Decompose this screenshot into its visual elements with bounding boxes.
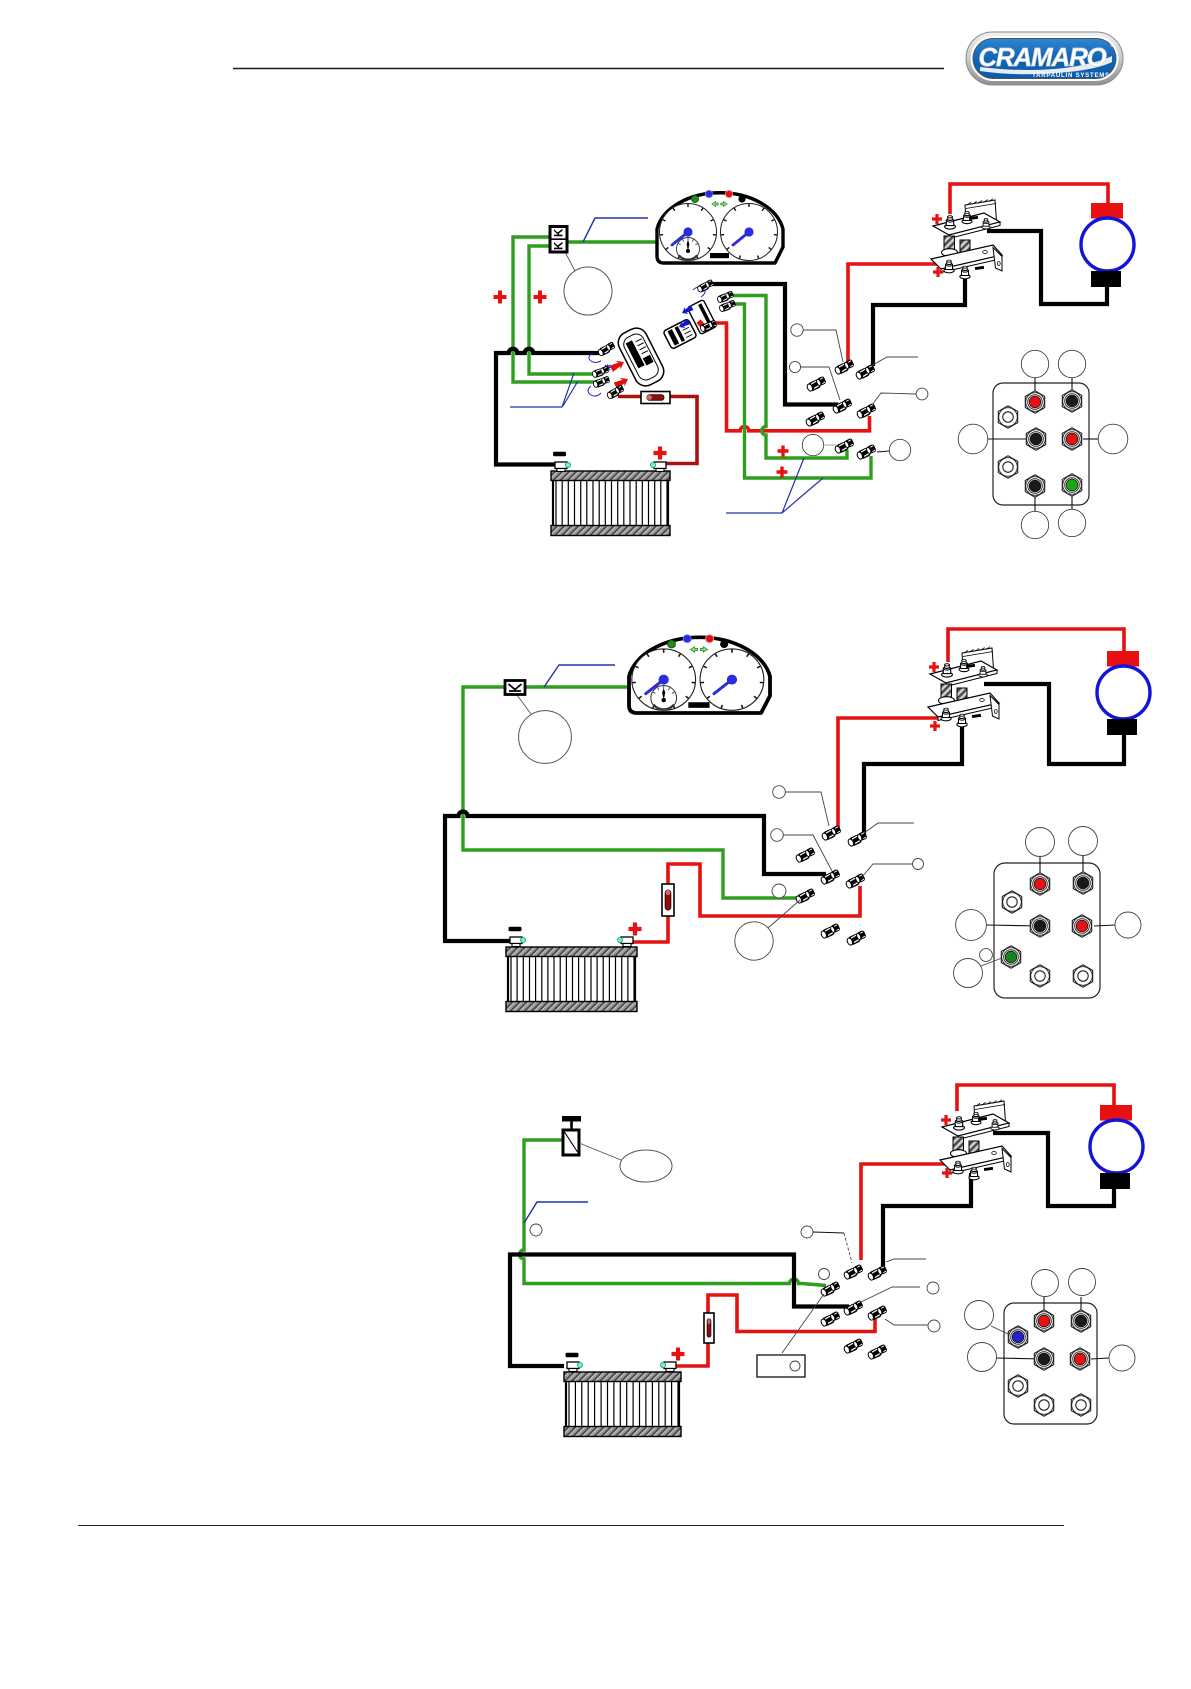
leader line B3 d3 <box>886 1259 926 1262</box>
nut empty bottom-right d2 <box>1073 965 1092 987</box>
bullet connector G2 d2 <box>820 923 842 940</box>
exploded connector assembly d1 <box>588 287 717 396</box>
wire red solenoid lower to bullet A3' d3 <box>861 1164 950 1260</box>
terminal circle right d3 <box>1109 1345 1135 1371</box>
pin line right d2 <box>1094 925 1115 926</box>
terminal small circle d2 <box>980 949 993 962</box>
svg-text:K: K <box>553 228 565 237</box>
solenoid relay assembly d3 <box>940 1100 1011 1180</box>
leader line A d1 <box>803 330 843 362</box>
leader switch to circle d2 <box>517 695 531 714</box>
battery minus sign d2 <box>509 927 522 932</box>
nut red middle-right d3 <box>1070 1348 1089 1370</box>
bullet connector (green top right) d1 <box>716 290 734 303</box>
fuse F2 d2 <box>662 884 674 916</box>
solenoid plus lower d3 <box>942 1168 952 1178</box>
nut red top-left d1 <box>1025 391 1044 413</box>
label box d3 <box>757 1355 805 1377</box>
battery B3 d3 <box>564 1372 681 1437</box>
svg-text:K: K <box>553 241 565 250</box>
solenoid plus lower d1 <box>933 267 943 277</box>
leader circle C2 d2 <box>771 829 784 842</box>
leader blue second to green d1 <box>563 381 578 406</box>
battery plus sign d3 <box>672 1348 685 1361</box>
fuse F1 d1 <box>641 392 670 404</box>
plus mark at green H d1 <box>777 467 788 478</box>
bullet connector G d1 <box>834 438 856 455</box>
leader blue to cluster wire d1 <box>583 218 648 242</box>
bullet connector B d1 <box>855 364 877 381</box>
battery plus sign d2 <box>629 923 642 936</box>
leader circle E2 d2 <box>913 859 924 870</box>
terminal circle left-mid d3 <box>968 1343 997 1372</box>
leader line D d1 <box>801 367 840 400</box>
terminal circle bottom-left d2 <box>954 959 983 988</box>
leader line E3 d3 <box>885 1319 928 1325</box>
wire red solenoid top to motor d1 <box>950 184 1108 214</box>
bullet connector H2 d2 <box>846 930 868 947</box>
bullet connector H d1 <box>856 444 878 461</box>
nut black middle-left d2 <box>1030 915 1049 937</box>
terminal circle top-left d2 <box>1026 828 1055 857</box>
battery negative terminal d1 <box>555 462 571 472</box>
wire dark-red bullet to fuse to battery plus d1 <box>618 397 697 464</box>
pin line blue d3 <box>991 1326 1008 1334</box>
wire black battery minus loop d3 <box>510 1255 849 1367</box>
leader line G d1 <box>824 444 836 446</box>
terminal circle top-left d1 <box>1021 350 1048 377</box>
terminal circle bottom-right d1 <box>1058 509 1085 536</box>
bullet connector (green lower) d1 <box>592 376 610 389</box>
nut empty bottom-right d3 <box>1071 1394 1090 1416</box>
leader circle (switch note) d1 <box>564 267 612 315</box>
bullet connector E3 d3 <box>867 1305 889 1322</box>
footer rule <box>78 1525 1064 1527</box>
motor M3 d3 black terminal block <box>1100 1173 1130 1189</box>
bullet connector (cluster black wire) d1 <box>696 279 714 293</box>
solenoid relay assembly d1 <box>931 199 1002 279</box>
instrument cluster d2 <box>629 635 770 713</box>
terminal circle left d2 <box>956 910 987 941</box>
battery positive terminal d2 <box>617 937 633 947</box>
pin line right d1 <box>1083 438 1098 440</box>
nut blue left-upper d3 <box>1008 1326 1027 1348</box>
leader blue second branch d1 <box>782 478 823 513</box>
leader line A3' d3 <box>813 1232 844 1233</box>
nut black top-right d2 <box>1073 872 1092 894</box>
bullet connector (green upper) d1 <box>591 366 609 379</box>
battery positive terminal d1 <box>650 462 666 472</box>
motor M1 d1 black terminal block <box>1091 271 1121 287</box>
leader line switch to circle d1 <box>565 252 575 271</box>
wire black solenoid to bullet B2 d2 <box>864 724 962 834</box>
pin line left d3 <box>996 1358 1044 1359</box>
bullet connector (black wire) d1 <box>597 341 617 357</box>
leader line C2 d2 <box>783 835 832 871</box>
motor M1 d1 red terminal block <box>1091 203 1123 219</box>
wire black motor to solenoid plate d3 <box>993 1133 1114 1206</box>
plus mark right d1 <box>534 291 547 304</box>
solenoid plus upper d2 <box>929 662 939 672</box>
leader line A2 d2 <box>785 792 829 826</box>
leader circle H d1 <box>889 439 910 460</box>
leader line E d1 <box>872 393 916 405</box>
bullet connector E d1 <box>856 403 878 420</box>
nut empty left-lower d3 <box>1008 1375 1027 1397</box>
wire black motor to solenoid plate d1 <box>987 231 1107 304</box>
leader line C3 d3 <box>861 1287 920 1302</box>
nut green bottom-right d1 <box>1062 474 1081 496</box>
wire green assembly to bullet H d1 <box>733 304 871 478</box>
leader small circle green d2 <box>772 884 786 898</box>
bullet connector F d1 <box>805 411 827 428</box>
wire green switch to cluster d2 <box>525 685 629 688</box>
pin line top-left d3 <box>1043 1297 1045 1321</box>
battery B2 d2 <box>506 947 637 1012</box>
terminal circle left-upper d3 <box>965 1301 994 1330</box>
wire red fuse to bullet E2 d2 <box>668 864 860 916</box>
wire green switch left-inner d1 <box>529 246 599 374</box>
nut empty bottom-left d3 <box>1034 1394 1053 1416</box>
wire green switch to bullet A3 d3 <box>520 1140 827 1286</box>
terminal circle top-right d2 <box>1069 827 1098 856</box>
bullet connector D3 d3 <box>820 1311 842 1328</box>
bullet connector A3 d3 <box>820 1281 842 1298</box>
pin line green d2 <box>981 958 1002 966</box>
leader line F2 d2 <box>768 900 800 928</box>
battery negative terminal d2 <box>510 937 526 947</box>
wire green switch to cluster d1 <box>567 240 657 243</box>
leader circle small d3 <box>530 1224 542 1236</box>
motor M3 d3 red terminal block <box>1100 1105 1132 1121</box>
wire red solenoid top to motor d3 <box>957 1085 1114 1111</box>
instrument cluster d1 <box>657 190 783 263</box>
terminal circle right d1 <box>1098 424 1128 454</box>
pin line top-right d3 <box>1080 1297 1082 1321</box>
solenoid plus lower d2 <box>930 721 940 731</box>
nut empty left-upper d1 <box>998 406 1017 428</box>
nut red middle-right d1 <box>1062 428 1081 450</box>
bullet connector C3 d3 <box>843 1300 865 1317</box>
wire red solenoid top to motor d2 <box>948 629 1124 662</box>
switch (toggle) S3 d3 <box>562 1116 581 1155</box>
bullet connector H3 d3 <box>867 1344 889 1361</box>
nut empty bottom-left d2 <box>1030 965 1049 987</box>
nut black bottom-left d1 <box>1025 475 1044 497</box>
nut red middle-right d2 <box>1072 915 1091 937</box>
wire green assembly to bullet G d1 <box>733 296 847 459</box>
bullet connector D d1 <box>832 398 854 415</box>
wire black battery minus loop d2 <box>445 812 826 942</box>
svg-text:CRAMARO: CRAMARO <box>978 42 1106 72</box>
svg-text:TARPAULIN SYSTEMS: TARPAULIN SYSTEMS <box>1032 73 1110 79</box>
terminal circle bottom-left d1 <box>1021 511 1048 538</box>
bullet connector F2 d2 <box>795 888 817 905</box>
battery plus sign d1 <box>654 447 667 460</box>
leader blue d3 <box>524 1202 588 1223</box>
bullet connector C2 d2 <box>795 847 817 864</box>
bullet connector (red feed) d1 <box>699 319 717 332</box>
leader circle A2 d2 <box>773 786 786 799</box>
bullet connector (dark red) d1 <box>606 384 626 400</box>
leader ellipse (switch note) d3 <box>620 1150 672 1182</box>
wire black connector assembly to battery minus d1 <box>496 349 601 465</box>
bullet connector G3 d3 <box>843 1338 865 1355</box>
bullet connector C d1 <box>806 376 828 393</box>
motor M1 d1 body <box>1081 218 1134 271</box>
wire red battery plus to fuse d2 <box>631 916 668 942</box>
wire red solenoid lower to bullet A d1 <box>848 264 941 364</box>
battery B1 d1 <box>551 471 670 536</box>
leader circle G d1 <box>802 434 823 455</box>
wire red solenoid lower to bullet A2 d2 <box>838 718 941 828</box>
bullet connector A2 d2 <box>821 825 843 842</box>
wire black solenoid to bullet B d1 <box>873 276 965 366</box>
leader blue to cluster wire d2 <box>544 665 615 687</box>
nut empty left-upper d2 <box>1002 891 1021 913</box>
fuse F3 d3 <box>704 1313 714 1343</box>
leader blue to green wires d1 <box>726 458 804 513</box>
nut black middle-left d1 <box>1026 428 1045 450</box>
label box circle d3 <box>790 1361 800 1371</box>
leader line B2 d2 <box>864 823 914 833</box>
wire black cluster to bullet D d1 <box>710 284 838 405</box>
svg-text:®: ® <box>1110 42 1115 49</box>
terminal circle top-right d1 <box>1058 350 1085 377</box>
nut red top-left d2 <box>1030 873 1049 895</box>
leader circle C3 d3 <box>927 1282 939 1294</box>
wire black solenoid to bullet B3 d3 <box>883 1173 971 1266</box>
nut black top-right d1 <box>1062 390 1081 412</box>
terminal circle right d2 <box>1115 912 1141 938</box>
nut red top-left d3 <box>1034 1310 1053 1332</box>
battery minus sign d3 <box>566 1353 579 1358</box>
nut empty left-lower d1 <box>998 456 1017 478</box>
bullet connector B3 d3 <box>867 1265 889 1282</box>
wire red assembly to bullet E d1 <box>714 323 870 431</box>
pin line bottom-left d1 <box>1034 486 1036 511</box>
leader circle E3 d3 <box>928 1320 940 1332</box>
bullet connector (green second right) d1 <box>718 299 736 312</box>
bullet connector D2 d2 <box>820 869 842 886</box>
Cramaro logo <box>966 32 1123 85</box>
battery positive terminal d3 <box>660 1362 676 1372</box>
header rule <box>233 68 944 70</box>
connector block X1 d1 <box>993 383 1089 505</box>
leader circle floating d3 <box>819 1269 830 1280</box>
pin line right d3 <box>1091 1358 1109 1359</box>
leader blue to battery wires d1 <box>510 373 574 407</box>
leader dashed A3' d3 <box>844 1233 852 1263</box>
terminal circle top-right d3 <box>1069 1269 1096 1296</box>
pin line left d2 <box>986 925 1040 926</box>
solenoid relay assembly d2 <box>928 647 999 727</box>
pin line top-left d2 <box>1039 855 1041 884</box>
terminal circle left d1 <box>958 424 988 454</box>
bullet connector E2 d2 <box>845 873 867 890</box>
leader circle F2 d2 <box>735 922 773 960</box>
bullet connector A d1 <box>834 359 856 376</box>
motor M2 d2 red terminal block <box>1107 651 1139 667</box>
leader line B d1 <box>871 357 918 366</box>
battery minus sign d1 <box>553 452 566 457</box>
leader circle (switch note) d2 <box>519 711 572 764</box>
leader line H d1 <box>877 451 889 452</box>
wire black motor to solenoid plate d2 <box>984 684 1124 764</box>
bullet connector B2 d2 <box>847 831 869 848</box>
nut black top-right d3 <box>1071 1310 1090 1332</box>
terminal circle top-left d3 <box>1032 1270 1059 1297</box>
plus mark at green G d1 <box>778 446 789 457</box>
bullet connector A3' d3 <box>843 1264 865 1281</box>
pin line left d1 <box>988 438 1036 440</box>
leader switch to ellipse d3 <box>579 1143 621 1160</box>
leader circle D d1 <box>789 361 800 372</box>
motor M2 d2 black terminal block <box>1107 719 1137 735</box>
nut green left-lower d2 <box>1001 946 1020 968</box>
leader line E2 d2 <box>862 864 913 877</box>
leader circle A3' d3 <box>801 1226 813 1238</box>
pin line top-left d1 <box>1034 377 1036 402</box>
plus mark left d1 <box>494 291 507 304</box>
wire green switch to bullet F2 d2 <box>463 687 800 898</box>
pin line top-right d1 <box>1071 377 1073 401</box>
battery negative terminal d3 <box>567 1362 583 1372</box>
pin line top-right d2 <box>1082 855 1084 883</box>
switch (dashboard rocker) S1 d1 <box>550 227 567 253</box>
leader label box to bullet A3 d3 <box>782 1294 824 1353</box>
wire red fuse to bullet E3 d3 <box>708 1295 875 1332</box>
leader circle E d1 <box>916 388 928 400</box>
switch (lever) S2 d2 <box>505 681 525 695</box>
wire green switch left-outer d1 <box>513 237 596 382</box>
solenoid plus upper d1 <box>932 214 942 224</box>
motor M2 d2 body <box>1097 666 1150 719</box>
wire red battery plus to fuse d3 <box>673 1343 708 1366</box>
nut black middle-left d3 <box>1034 1348 1053 1370</box>
leader circle A d1 <box>791 324 803 336</box>
motor M3 d3 body <box>1090 1120 1143 1173</box>
pin line bottom-right d1 <box>1071 485 1073 509</box>
connector block X2 d2 <box>994 863 1100 998</box>
connector block X3 d3 <box>1004 1303 1097 1424</box>
solenoid plus upper d3 <box>941 1115 951 1125</box>
